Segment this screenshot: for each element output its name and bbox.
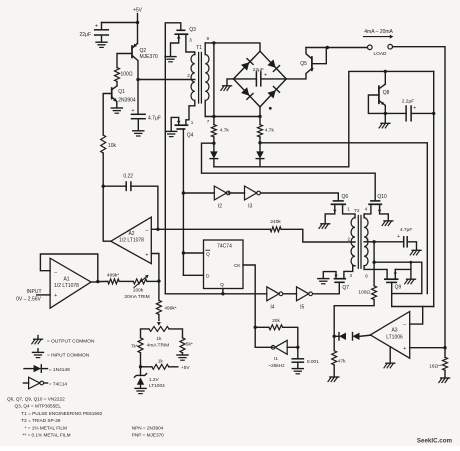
bridge rectifier diamond [234, 51, 261, 79]
wire LOAD return down right side [393, 47, 446, 348]
wire CK from oscillator [243, 265, 255, 347]
wire Q1 emitter to ground [116, 102, 118, 108]
wire 240k to T2 pin 2 [281, 229, 355, 242]
svg-text:Q7: Q7 [342, 285, 349, 291]
ground input-common under 4.7uF [133, 130, 144, 132]
svg-text:= OUTPUT COMMON: = OUTPUT COMMON [47, 338, 95, 344]
wire I1 input node [287, 346, 298, 348]
svg-text:22μF: 22μF [253, 67, 264, 73]
svg-text:T1 = PULSE ENGINEERING PE61592: T1 = PULSE ENGINEERING PE61592 [21, 411, 102, 416]
wire A3 ground stem [389, 347, 391, 363]
svg-text:+5V: +5V [133, 8, 143, 14]
svg-text:100Ω: 100Ω [358, 290, 370, 296]
svg-text:1/2 LT1078: 1/2 LT1078 [119, 238, 144, 244]
svg-text:I3: I3 [248, 204, 252, 210]
op-amp A2 1/2 LT1078 [111, 217, 152, 264]
svg-text:240k: 240k [270, 219, 281, 225]
ground input-common under 0.001 [292, 368, 303, 370]
svg-text:22μF: 22μF [80, 32, 92, 38]
ground output-common under 16ohm [441, 377, 450, 379]
svg-text:+: + [131, 108, 134, 114]
ground output-common at Q9 [407, 278, 416, 280]
transistor Q2 MJE370 [131, 46, 133, 58]
svg-text:Q3: Q3 [189, 27, 196, 33]
svg-text:Q8: Q8 [383, 90, 390, 96]
svg-text:+: + [403, 346, 406, 352]
svg-text:MJE370: MJE370 [140, 54, 159, 60]
wire 0.22 to A2 inverting input [131, 186, 158, 229]
wire 4.7k rail [205, 116, 260, 118]
svg-text:16Ω**: 16Ω** [429, 364, 442, 370]
ground output-common at Q6 [321, 223, 330, 225]
wire to inverter I2 [183, 192, 214, 194]
svg-text:Q4: Q4 [187, 133, 194, 139]
resistor 10k [101, 135, 106, 153]
svg-text:1k: 1k [158, 359, 164, 365]
resistor 20k [255, 326, 269, 328]
ground input-common at Q3 source [165, 56, 176, 58]
svg-text:Q6, Q7, Q9, Q10 = VN2222: Q6, Q7, Q9, Q10 = VN2222 [7, 397, 65, 402]
resistor 240k [270, 227, 281, 232]
svg-text:4.7k: 4.7k [265, 128, 275, 134]
svg-text:T2 = TRIAD SP-29: T2 = TRIAD SP-29 [21, 418, 61, 423]
node 4.7k/diode junction left [212, 142, 215, 145]
wire Q output rail [165, 293, 266, 295]
transistor Q3 VN2222 mosfet [177, 29, 184, 31]
wire 20k to I1 input [283, 327, 298, 347]
capacitor 0.001 [297, 347, 299, 358]
svg-text:499k*: 499k* [107, 273, 119, 279]
ground input-common at Q4 source [166, 130, 177, 132]
node Q8 collector rail junction [384, 70, 387, 73]
transistor Q8 [384, 71, 386, 84]
svg-text:** = 0.1% METAL FILM: ** = 0.1% METAL FILM [23, 433, 71, 438]
wire T2 pin5 junction [364, 241, 374, 243]
svg-text:4: 4 [365, 207, 368, 212]
wire Q2 base to 100ohm [117, 54, 132, 68]
wire right rail down [433, 71, 435, 306]
svg-text:20k: 20k [272, 318, 280, 324]
svg-text:100k: 100k [133, 288, 144, 294]
transistor Q9 VN2222 [385, 278, 398, 280]
resistor 100ohm sense [373, 262, 375, 286]
svg-text:–: – [54, 269, 57, 275]
capacitor 4.7uF at Q2 collector [137, 80, 139, 114]
wire T1 pin 1 to Q4 drain [186, 101, 195, 126]
svg-text:T2: T2 [354, 208, 360, 214]
op-amp A1 1/2 LT1078 [50, 258, 91, 308]
wire bridge bottom to rail [259, 107, 261, 117]
capacitor 4.7uF at T2 [374, 241, 404, 243]
node dot near bridge bottom [269, 107, 272, 110]
svg-text:LOAD: LOAD [373, 51, 387, 57]
wire Q3 drain to T1 pin 3 [186, 34, 195, 54]
svg-text:+: + [95, 24, 98, 30]
wire I4 to I5 [284, 293, 297, 295]
svg-text:0.22: 0.22 [123, 174, 133, 180]
wire A3 plus input to sense [410, 347, 445, 349]
diode bridge bottom-left [241, 87, 249, 95]
resistor 100ohm [115, 68, 120, 82]
svg-text:+: + [413, 106, 416, 112]
svg-text:47k: 47k [338, 359, 346, 365]
svg-text:I4: I4 [270, 305, 274, 311]
capacitor 22uF [101, 23, 103, 30]
ground input-common at Q7 [318, 278, 329, 280]
svg-text:I2: I2 [218, 204, 222, 210]
svg-text:Q3, Q4 = MTP3055EL: Q3, Q4 = MTP3055EL [15, 404, 62, 409]
wire Q10 source to T2 pin4 [364, 204, 371, 218]
transistor Q10 VN2222 [371, 200, 380, 202]
wire +5V to C 22uF [102, 22, 138, 24]
wire T2 pin6 to Q9 [364, 266, 387, 279]
svg-text:* = 1% METAL FILM: * = 1% METAL FILM [25, 426, 67, 431]
wire I1 output feedback [255, 346, 273, 348]
resistor 5k* [180, 338, 185, 353]
svg-text:D: D [206, 274, 210, 280]
svg-text:A2: A2 [128, 231, 134, 237]
svg-text:LT1006: LT1006 [386, 334, 403, 340]
svg-text:7k*: 7k* [131, 344, 138, 350]
zener 1.2V LT1004 [140, 367, 142, 376]
svg-text:A1: A1 [63, 277, 69, 283]
transistor Q4 VN2222 mosfet [175, 124, 187, 126]
wire lower node to A3 staircase [374, 262, 422, 293]
svg-text:I1: I1 [274, 356, 278, 362]
wire D input [183, 274, 203, 276]
svg-text:SeekIC.com: SeekIC.com [417, 438, 453, 445]
svg-text:T1: T1 [196, 45, 202, 51]
ground output-common at Q8 [384, 113, 386, 123]
node CK / 20k junction [254, 326, 257, 329]
svg-text:LT1004: LT1004 [149, 383, 165, 389]
wire Q output down [222, 289, 224, 294]
inverter I1 74C14 oscillator [275, 340, 287, 354]
wire A2 output [103, 186, 111, 241]
wire A1 output to 499k [98, 280, 108, 282]
diode bridge top-right [267, 59, 275, 67]
svg-text:4.7μF: 4.7μF [148, 116, 161, 122]
node 2.2uF right [432, 112, 435, 115]
node 4.7k/diode junction right [258, 141, 261, 144]
wire diode rail to Q8 collector rail [214, 71, 434, 166]
wire Q6 source to T2 pin1 [343, 204, 355, 218]
svg-text:= 74C14: = 74C14 [49, 381, 68, 387]
svg-text:4.7μF: 4.7μF [400, 227, 412, 233]
svg-text:3: 3 [350, 273, 353, 278]
inverter I3 74C14 [245, 186, 257, 200]
capacitor 0.22 [103, 185, 126, 187]
resistor 4.7k left [213, 117, 215, 125]
resistor 16ohm** [444, 348, 446, 358]
wire T2 pin3 to Q7 drain [344, 266, 355, 279]
ground input-common under zener [135, 387, 146, 389]
svg-text:4mA – 20mA: 4mA – 20mA [364, 29, 393, 35]
inverter I2 74C14 [214, 186, 226, 200]
wire T1 pin 9 to bridge [204, 43, 206, 55]
svg-text:74C74: 74C74 [217, 244, 232, 250]
svg-text:1/2 LT1078: 1/2 LT1078 [54, 283, 79, 289]
wire A1 feedback loop [91, 281, 98, 283]
wire A2 non-inverting input down [151, 254, 159, 282]
svg-text:= 1N4148: = 1N4148 [49, 367, 70, 373]
wire clamp node left jog to Q10 gate [202, 143, 376, 200]
wire 100ohm to diode node [334, 300, 374, 337]
potentiometer 100k 20mA TRIM [133, 279, 147, 284]
op-amp A3 LT1006 [370, 312, 409, 359]
wire T1 pin 7 to rail [204, 101, 206, 117]
wire clamp node right to A3 region [260, 143, 427, 294]
svg-text:Q10: Q10 [377, 194, 387, 200]
wire I5 to Q7 [313, 293, 339, 295]
wire I2 to I3 [228, 192, 244, 194]
diode pair to A3 output [334, 335, 339, 337]
wire Q9 drain from sense rail [410, 262, 412, 279]
node diode/47k junction [333, 335, 336, 338]
wire input to A1 [37, 294, 50, 296]
wire node to T1 pin 2 [138, 79, 195, 81]
svg-text:4mA TRIM: 4mA TRIM [147, 343, 170, 349]
svg-text:10k: 10k [108, 143, 117, 149]
svg-text:9: 9 [207, 36, 210, 41]
svg-text:Q6: Q6 [342, 194, 349, 200]
wire 74C74 Q output up to Q3 gate [165, 23, 181, 294]
wire Q1 base down to 10k [103, 94, 112, 136]
wire Qbar to box [183, 252, 203, 254]
svg-text:Q: Q [220, 282, 224, 288]
wire staircase horizontals [392, 306, 434, 308]
svg-text:2N3904: 2N3904 [118, 97, 136, 103]
diode 1N4148 left clamp [213, 143, 215, 151]
transistor Q5 [311, 57, 313, 70]
wire I3 to Q6 gate [261, 193, 339, 201]
ground input-common under Q1 [111, 107, 122, 109]
ground output-common after 4.7uF [412, 249, 421, 251]
node A2 inverting input [156, 228, 159, 231]
node 0.22 feedback junction [102, 185, 105, 188]
svg-text:PNP = MJE370: PNP = MJE370 [132, 433, 164, 438]
node Q output [221, 292, 224, 295]
wire pin9 junction down to 4.7k rail [213, 43, 215, 117]
svg-text:Q9: Q9 [395, 285, 402, 291]
svg-text:0V – 2.56V: 0V – 2.56V [16, 296, 41, 302]
svg-text:4.7k: 4.7k [220, 128, 230, 134]
diode 1N4148 right clamp [259, 143, 261, 151]
IC 74C74 flip-flop [204, 240, 244, 289]
ground output-common at bridge left corner [227, 79, 234, 86]
resistor 499k* horizontal [108, 279, 119, 284]
ground input-common under 5k [177, 354, 188, 356]
resistor 47k [333, 336, 335, 350]
wire 499k to 4mA trim wiper arrow [158, 314, 160, 320]
potentiometer 1k 4mA TRIM [149, 326, 169, 331]
ground output-common under 47k [330, 376, 339, 378]
transistor Q7 VN2222 [335, 278, 346, 280]
node T1 pin 9 junction [212, 41, 215, 44]
ground output-common at Q10 [384, 220, 393, 222]
svg-text:–: – [145, 228, 148, 234]
diode bridge top-left [241, 62, 249, 70]
resistor 499k* vertical [158, 281, 160, 300]
svg-text:2: 2 [187, 73, 190, 78]
wire pot left to 7k [141, 329, 150, 338]
capacitor 22uF bridge [234, 78, 257, 80]
svg-text:A3: A3 [391, 328, 397, 334]
svg-text:1: 1 [191, 120, 194, 125]
resistor 4.7k right [258, 115, 261, 118]
svg-text:5k*: 5k* [186, 342, 193, 348]
svg-text:INPUT: INPUT [27, 289, 42, 295]
svg-text:Q1: Q1 [118, 89, 125, 95]
node Q8 emitter [384, 112, 387, 115]
svg-text:+: + [397, 234, 400, 240]
svg-text:1.2V: 1.2V [149, 377, 160, 383]
node LOAD return / 16ohm junction [443, 346, 446, 349]
svg-text:+: + [54, 293, 57, 299]
wire A2 inverting input to 240k [151, 228, 270, 230]
svg-text:499k*: 499k* [164, 306, 176, 312]
node A2+ / divider junction [157, 279, 160, 282]
wire pin5 down to lower node [373, 242, 375, 262]
node Q2 collector junction [136, 78, 139, 81]
legend output common symbol [37, 336, 39, 339]
legend diode 1N4148 [24, 368, 34, 370]
svg-text:1k: 1k [156, 336, 162, 342]
svg-text:20mA TRIM: 20mA TRIM [124, 294, 149, 300]
ground input-common under 22uF [96, 41, 107, 43]
transistor Q6 VN2222 [334, 200, 344, 202]
wire pot right to 5k [169, 329, 183, 338]
LOAD terminals [368, 45, 373, 50]
svg-text:6: 6 [365, 274, 368, 279]
legend inverter 74C14 [23, 382, 28, 384]
svg-text:+: + [145, 252, 148, 258]
svg-text:+5V: +5V [181, 365, 190, 371]
wire Q7 gate to I5 riser [338, 282, 340, 294]
svg-text:100Ω: 100Ω [121, 72, 133, 78]
svg-text:CK: CK [234, 263, 241, 269]
svg-text:0.001: 0.001 [307, 359, 319, 365]
resistor 1k to +5V [141, 366, 152, 368]
inverter I5 74C14 [297, 287, 309, 301]
svg-text:+: + [264, 73, 267, 79]
svg-text:–: – [403, 322, 406, 328]
inverter I4 74C14 [267, 287, 279, 301]
svg-text:Q5: Q5 [300, 61, 307, 67]
node Qbar line to I2 [182, 191, 185, 194]
legend input common symbol [37, 349, 39, 352]
svg-text:7: 7 [207, 119, 210, 124]
wire Q4 gate down to 74C74 D/Qbar [182, 129, 184, 275]
wire Q9 gate down to staircase [391, 282, 393, 306]
svg-text:NPN = 2N3904: NPN = 2N3904 [132, 426, 164, 431]
node 7k / zener junction [139, 365, 142, 368]
node T2 lower junction [372, 261, 375, 264]
resistor 7k* [138, 338, 143, 353]
transistor Q1 2N3904 [111, 88, 113, 99]
svg-text:5: 5 [366, 236, 369, 241]
diode bridge bottom-right [267, 90, 275, 98]
svg-text:~25kHz: ~25kHz [268, 363, 285, 369]
svg-text:1: 1 [347, 207, 350, 212]
capacitor 2.2uF [385, 112, 406, 114]
node Qbar feedback [182, 251, 185, 254]
svg-text:2.2μF: 2.2μF [402, 99, 414, 105]
svg-text:3: 3 [189, 38, 192, 43]
svg-text:Q: Q [206, 252, 210, 258]
svg-text:I5: I5 [300, 305, 304, 311]
svg-text:= INPUT COMMON: = INPUT COMMON [47, 352, 90, 358]
svg-text:2: 2 [347, 236, 350, 241]
